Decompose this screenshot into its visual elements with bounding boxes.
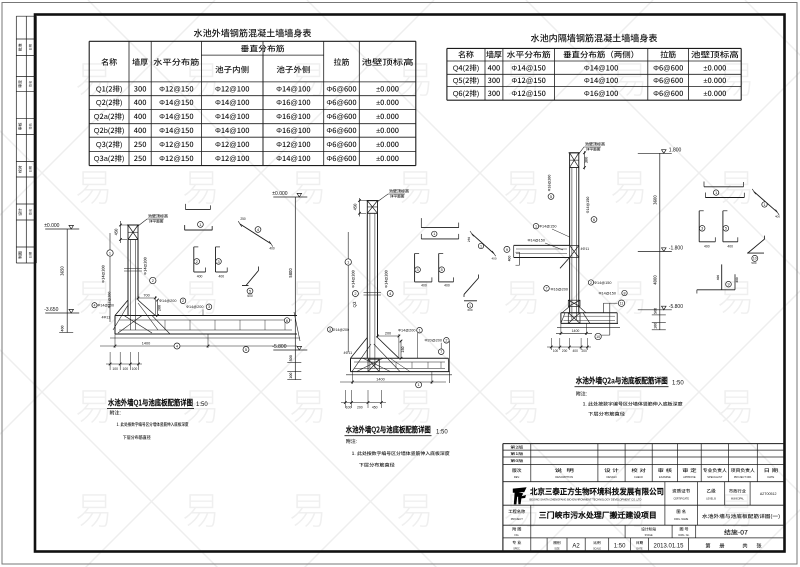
svg-text:比例: 比例 <box>593 540 601 546</box>
svg-text:Φ14@150: Φ14@150 <box>586 197 591 214</box>
svg-text:400: 400 <box>421 284 427 288</box>
svg-text:1. 此处按数字编号区分墙体竖筋伸入底板深度: 1. 此处按数字编号区分墙体竖筋伸入底板深度 <box>117 422 189 428</box>
svg-text:PROJECT: PROJECT <box>511 517 524 521</box>
svg-text:500: 500 <box>653 308 658 314</box>
svg-text:详平面图: 详平面图 <box>390 194 405 200</box>
svg-text:±0.000: ±0.000 <box>703 75 726 86</box>
svg-text:Φ6@600: Φ6@600 <box>326 153 356 164</box>
svg-text:400: 400 <box>735 277 739 282</box>
svg-text:Q2(2排): Q2(2排) <box>96 97 123 108</box>
svg-text:CERTIFICATE: CERTIFICATE <box>673 498 689 501</box>
svg-text:500: 500 <box>289 355 294 361</box>
svg-text:设 计: 设 计 <box>604 468 619 474</box>
svg-text:2: 2 <box>354 291 356 296</box>
svg-text:Φ14@150: Φ14@150 <box>594 281 611 285</box>
svg-text:详平面图: 详平面图 <box>149 219 164 225</box>
svg-text:4: 4 <box>94 303 96 307</box>
svg-text:100: 100 <box>112 367 118 371</box>
svg-text:-5.800: -5.800 <box>669 304 683 310</box>
svg-text:200: 200 <box>385 332 391 336</box>
svg-text:3: 3 <box>417 268 419 272</box>
svg-text:垂直分布筋（两侧）: 垂直分布筋（两侧） <box>563 50 639 61</box>
svg-text:3600: 3600 <box>652 195 658 205</box>
svg-text:EXAMINE: EXAMINE <box>659 475 671 479</box>
svg-text:2: 2 <box>196 260 198 264</box>
svg-text:签名: 签名 <box>28 209 33 215</box>
svg-text:Φ14@200: Φ14@200 <box>102 265 107 283</box>
svg-text:9: 9 <box>727 283 729 287</box>
svg-text:Φ12@100: Φ12@100 <box>215 83 249 94</box>
svg-text:结施-07: 结施-07 <box>724 528 749 537</box>
svg-text:易: 易 <box>717 376 755 431</box>
svg-text:DESIGN: DESIGN <box>607 475 617 479</box>
svg-text:Φ14@150: Φ14@150 <box>159 125 193 136</box>
svg-text:4000: 4000 <box>652 275 658 285</box>
svg-text:Φ14@150: Φ14@150 <box>511 62 545 73</box>
svg-text:水平分布筋: 水平分布筋 <box>153 57 199 68</box>
svg-text:附 图: 附 图 <box>512 527 521 533</box>
svg-text:APPROVE: APPROVE <box>683 475 696 479</box>
svg-text:Q2a(2排): Q2a(2排) <box>94 111 125 122</box>
svg-text:Φ14@100: Φ14@100 <box>276 153 310 164</box>
svg-text:250: 250 <box>134 139 147 150</box>
svg-text:100: 100 <box>132 367 138 371</box>
svg-text:易: 易 <box>289 376 327 431</box>
svg-text:Φ14@100: Φ14@100 <box>276 83 310 94</box>
svg-text:拉筋: 拉筋 <box>334 57 350 68</box>
svg-text:400: 400 <box>444 284 450 288</box>
svg-text:600: 600 <box>247 294 253 298</box>
svg-text:250: 250 <box>134 153 147 164</box>
svg-text:7: 7 <box>440 350 442 354</box>
svg-text:名称: 名称 <box>101 57 117 68</box>
svg-text:400: 400 <box>727 244 733 248</box>
svg-text:附注:: 附注: <box>110 410 121 417</box>
svg-text:审 定: 审 定 <box>682 468 697 474</box>
svg-text:日期: 日期 <box>636 541 644 546</box>
svg-text:制图: 制图 <box>18 251 24 259</box>
svg-text:说 明: 说 明 <box>555 468 575 474</box>
svg-text:1: 1 <box>347 259 349 264</box>
svg-text:±0.000: ±0.000 <box>376 139 399 150</box>
svg-text:第0版: 第0版 <box>510 458 524 464</box>
svg-text:Φ6@600: Φ6@600 <box>326 111 356 122</box>
svg-text:第1版: 第1版 <box>510 451 524 457</box>
svg-text:墙厚: 墙厚 <box>132 57 148 68</box>
svg-text:400: 400 <box>197 275 203 279</box>
svg-text:垂直分布筋: 垂直分布筋 <box>241 44 285 55</box>
svg-text:400: 400 <box>704 244 710 248</box>
svg-text:DATE: DATE <box>768 475 775 479</box>
svg-text:Q2: Q2 <box>352 301 358 307</box>
svg-text:签名: 签名 <box>28 81 33 87</box>
svg-text:1: 1 <box>535 225 537 229</box>
svg-text:100: 100 <box>346 405 352 409</box>
svg-text:±0.000: ±0.000 <box>376 153 399 164</box>
svg-text:300: 300 <box>585 157 590 164</box>
svg-text:±0.000: ±0.000 <box>376 125 399 136</box>
svg-text:易: 易 <box>75 480 113 535</box>
svg-text:第2版: 第2版 <box>510 445 524 451</box>
svg-text:版次: 版次 <box>512 468 522 474</box>
svg-text:Q2b(2排): Q2b(2排) <box>94 125 125 136</box>
svg-text:1: 1 <box>109 250 111 255</box>
svg-text:3: 3 <box>329 328 331 332</box>
svg-text:200: 200 <box>357 405 363 409</box>
svg-text:Φ12@150: Φ12@150 <box>159 139 193 150</box>
svg-text:册: 册 <box>719 543 724 550</box>
svg-text:1400: 1400 <box>142 342 150 346</box>
svg-text:100: 100 <box>122 367 128 371</box>
svg-text:Φ14@150: Φ14@150 <box>539 225 556 229</box>
svg-text:易: 易 <box>396 480 434 535</box>
svg-text:Φ6@600: Φ6@600 <box>326 139 356 150</box>
svg-text:水平分布筋: 水平分布筋 <box>507 50 551 61</box>
svg-text:200: 200 <box>582 349 588 353</box>
svg-text:7: 7 <box>545 287 547 291</box>
svg-text:Φ14@150: Φ14@150 <box>528 239 545 243</box>
svg-text:CHECK: CHECK <box>634 475 643 479</box>
svg-text:池壁顶标高: 池壁顶标高 <box>362 57 414 68</box>
svg-text:1400: 1400 <box>572 329 580 333</box>
svg-text:Φ12@150: Φ12@150 <box>159 83 193 94</box>
svg-text:400: 400 <box>573 349 579 353</box>
svg-text:Φ14@100: Φ14@100 <box>215 111 249 122</box>
svg-text:-5.800: -5.800 <box>272 344 286 350</box>
svg-text:LEVEL B: LEVEL B <box>706 498 716 501</box>
svg-text:400: 400 <box>269 247 275 251</box>
svg-text:10: 10 <box>596 335 600 339</box>
svg-text:±0.000: ±0.000 <box>272 191 287 197</box>
svg-text:MUNICIPAL: MUNICIPAL <box>731 498 745 501</box>
svg-text:易: 易 <box>717 157 755 212</box>
svg-text:市政行业: 市政行业 <box>729 489 746 495</box>
svg-text:易: 易 <box>503 157 541 212</box>
svg-text:易: 易 <box>289 267 327 322</box>
svg-text:专 业: 专 业 <box>512 540 521 546</box>
svg-text:500: 500 <box>751 261 756 265</box>
svg-text:Φ14@100: Φ14@100 <box>584 75 618 86</box>
svg-text:Φ6@600: Φ6@600 <box>326 125 356 136</box>
svg-text:Φ16@200: Φ16@200 <box>551 287 568 291</box>
svg-text:Φ14@200: Φ14@200 <box>352 270 357 288</box>
svg-text:Φ16@100: Φ16@100 <box>276 111 310 122</box>
svg-text:DESCRIPTION: DESCRIPTION <box>555 475 573 479</box>
svg-text:校对: 校对 <box>18 165 24 173</box>
svg-text:下层分布筋直径: 下层分布筋直径 <box>359 463 395 469</box>
svg-text:100: 100 <box>553 349 559 353</box>
svg-text:1:50: 1:50 <box>196 402 208 408</box>
svg-text:水池外墙与池底板配筋详图(一): 水池外墙与池底板配筋详图(一) <box>702 513 780 520</box>
svg-text:审定: 审定 <box>18 80 24 88</box>
svg-text:100: 100 <box>653 323 658 329</box>
svg-text:第: 第 <box>705 543 710 550</box>
svg-text:Φ20@200: Φ20@200 <box>425 339 442 343</box>
svg-text:SPEC.: SPEC. <box>513 547 521 550</box>
svg-text:5: 5 <box>441 268 443 272</box>
svg-text:1:50: 1:50 <box>614 544 626 550</box>
svg-text:详平面图: 详平面图 <box>586 147 601 153</box>
svg-text:Φ14@100: Φ14@100 <box>215 97 249 108</box>
svg-text:水池内隔墙钢筋混凝土墙墙身表: 水池内隔墙钢筋混凝土墙墙身表 <box>531 31 658 45</box>
svg-text:设计阶段: 设计阶段 <box>641 527 656 533</box>
svg-text:1: 1 <box>480 244 482 248</box>
svg-text:三门峡市污水处理厂搬迁建设项目: 三门峡市污水处理厂搬迁建设项目 <box>539 510 657 521</box>
svg-text:名称: 名称 <box>458 50 474 61</box>
svg-text:Q3a(2排): Q3a(2排) <box>94 153 125 164</box>
svg-text:1: 1 <box>418 382 420 387</box>
svg-text:250: 250 <box>467 237 471 242</box>
svg-text:水池外墙钢筋混凝土墙墙身表: 水池外墙钢筋混凝土墙墙身表 <box>194 26 312 40</box>
svg-text:11: 11 <box>620 301 624 305</box>
svg-text:Φ6@600: Φ6@600 <box>653 62 683 73</box>
svg-text:2: 2 <box>152 278 154 283</box>
svg-text:Φ14@150: Φ14@150 <box>159 111 193 122</box>
svg-text:Φ6@600: Φ6@600 <box>653 88 683 99</box>
svg-text:±0.000: ±0.000 <box>376 111 399 122</box>
svg-text:400: 400 <box>134 111 147 122</box>
svg-text:PROJECT DIR.: PROJECT DIR. <box>734 475 752 479</box>
svg-text:1: 1 <box>763 203 765 207</box>
svg-text:±0.000: ±0.000 <box>703 88 726 99</box>
svg-text:附注:: 附注: <box>576 391 587 398</box>
svg-text:3650: 3650 <box>60 266 66 276</box>
svg-text:400: 400 <box>507 256 512 262</box>
svg-text:±0.000: ±0.000 <box>44 223 59 229</box>
svg-text:Q1(2排): Q1(2排) <box>96 83 123 94</box>
svg-text:REV.: REV. <box>514 475 520 479</box>
svg-text:400: 400 <box>716 275 720 280</box>
svg-text:水池外墙Q2与池底板配筋详图: 水池外墙Q2与池底板配筋详图 <box>345 424 431 436</box>
svg-text:Φ16@100: Φ16@100 <box>276 125 310 136</box>
svg-text:Φ16@100: Φ16@100 <box>584 88 618 99</box>
svg-text:专业负责人: 专业负责人 <box>703 468 727 474</box>
svg-text:日期: 日期 <box>28 166 33 172</box>
svg-text:300: 300 <box>488 88 501 99</box>
svg-text:DATE: DATE <box>636 547 643 550</box>
svg-text:Φ14@200: Φ14@200 <box>144 257 149 275</box>
svg-text:FIG.: FIG. <box>514 534 519 537</box>
svg-text:易: 易 <box>717 267 755 322</box>
svg-text:4Φ11: 4Φ11 <box>344 351 353 355</box>
svg-text:9: 9 <box>506 247 508 252</box>
svg-text:拉筋: 拉筋 <box>660 50 676 61</box>
svg-text:SIZE: SIZE <box>554 547 560 550</box>
svg-text:易: 易 <box>610 157 648 212</box>
svg-text:Φ6@600: Φ6@600 <box>326 97 356 108</box>
svg-text:池子外侧: 池子外侧 <box>276 65 310 76</box>
svg-text:1: 1 <box>433 232 435 236</box>
svg-text:4Φ11: 4Φ11 <box>581 247 590 251</box>
svg-text:图 号: 图 号 <box>679 527 688 533</box>
svg-text:Φ12@150: Φ12@150 <box>511 88 545 99</box>
svg-text:SCALE: SCALE <box>593 547 601 550</box>
svg-text:工程名称: 工程名称 <box>508 509 526 515</box>
svg-text:易: 易 <box>503 267 541 322</box>
svg-text:±0.000: ±0.000 <box>703 62 726 73</box>
svg-text:Φ12@100: Φ12@100 <box>215 139 249 150</box>
svg-text:2: 2 <box>182 299 184 303</box>
svg-text:校 对: 校 对 <box>631 468 646 474</box>
svg-text:400: 400 <box>491 257 496 261</box>
svg-text:3: 3 <box>217 260 219 264</box>
svg-text:池子内侧: 池子内侧 <box>215 65 249 76</box>
svg-text:Φ14@150: Φ14@150 <box>599 291 616 295</box>
svg-text:易: 易 <box>182 480 220 535</box>
svg-text:DWG. NAME: DWG. NAME <box>674 518 688 521</box>
svg-text:Φ14@200: Φ14@200 <box>398 329 415 333</box>
svg-text:Φ12@150: Φ12@150 <box>159 153 193 164</box>
svg-text:Φ14@100: Φ14@100 <box>584 62 618 73</box>
svg-text:批准: 批准 <box>18 43 24 51</box>
svg-text:Φ14@200: Φ14@200 <box>98 304 115 308</box>
svg-text:易: 易 <box>289 480 327 535</box>
svg-text:Φ6@600: Φ6@600 <box>326 83 356 94</box>
svg-text:下层分布筋直径: 下层分布筋直径 <box>588 412 625 418</box>
svg-text:1. 此处按数字编号区分墙体竖筋伸入底板深度: 1. 此处按数字编号区分墙体竖筋伸入底板深度 <box>352 451 450 457</box>
svg-text:图别: 图别 <box>553 541 561 546</box>
svg-text:Φ14@200: Φ14@200 <box>186 305 203 309</box>
svg-text:水池外墙Q1与池底板配筋详图: 水池外墙Q1与池底板配筋详图 <box>107 397 193 409</box>
svg-text:400: 400 <box>218 275 224 279</box>
svg-text:Φ14@200: Φ14@200 <box>333 328 350 332</box>
svg-text:450: 450 <box>114 228 120 236</box>
svg-text:Φ14@100: Φ14@100 <box>215 125 249 136</box>
svg-text:项目负责人: 项目负责人 <box>731 468 755 474</box>
svg-text:日期: 日期 <box>28 44 33 50</box>
svg-text:审 核: 审 核 <box>658 468 673 474</box>
svg-text:1.800: 1.800 <box>669 147 682 153</box>
svg-text:附注:: 附注: <box>346 438 357 445</box>
svg-text:审核: 审核 <box>18 122 24 130</box>
svg-text:5: 5 <box>725 227 727 231</box>
svg-text:Φ14@200: Φ14@200 <box>384 270 389 288</box>
svg-text:1: 1 <box>715 191 717 195</box>
svg-text:图 名: 图 名 <box>676 509 686 515</box>
svg-text:600: 600 <box>467 308 472 312</box>
svg-text:6: 6 <box>593 217 595 222</box>
svg-text:下层分布筋直径: 下层分布筋直径 <box>123 435 151 441</box>
svg-text:3: 3 <box>208 305 210 309</box>
svg-text:BEIJING SANTAI ZHENGFANG BIO-E: BEIJING SANTAI ZHENGFANG BIO-ENVIRONMENT… <box>530 498 642 502</box>
svg-text:400: 400 <box>775 215 780 219</box>
svg-text:450: 450 <box>353 203 359 211</box>
svg-text:2: 2 <box>445 339 447 343</box>
svg-text:1: 1 <box>418 329 420 333</box>
svg-text:STAGE: STAGE <box>645 534 653 537</box>
svg-text:Φ12@150: Φ12@150 <box>511 75 545 86</box>
svg-text:签名: 签名 <box>28 123 33 129</box>
svg-text:A2: A2 <box>572 544 580 550</box>
svg-text:Φ12@100: Φ12@100 <box>215 153 249 164</box>
svg-text:5: 5 <box>245 347 247 352</box>
svg-text:2: 2 <box>590 281 592 285</box>
svg-text:1400: 1400 <box>376 378 384 382</box>
svg-text:设计: 设计 <box>18 208 24 216</box>
svg-text:200: 200 <box>562 349 568 353</box>
svg-text:水池外墙Q2a与池底板配筋详图: 水池外墙Q2a与池底板配筋详图 <box>575 375 668 387</box>
svg-text:6: 6 <box>286 318 288 323</box>
svg-text:700: 700 <box>143 294 149 298</box>
svg-text:Φ12@100: Φ12@100 <box>276 139 310 150</box>
svg-text:3: 3 <box>701 227 703 231</box>
svg-text:乙级: 乙级 <box>706 489 716 495</box>
svg-text:Q3(2排): Q3(2排) <box>96 139 123 150</box>
svg-text:450: 450 <box>372 405 378 409</box>
svg-text:日期: 日期 <box>28 252 33 258</box>
svg-text:±0.000: ±0.000 <box>376 97 399 108</box>
svg-text:北京三泰正方生物环境科技发展有限公司: 北京三泰正方生物环境科技发展有限公司 <box>530 486 664 498</box>
svg-text:资质证书: 资质证书 <box>672 489 691 495</box>
svg-text:Q4(2排): Q4(2排) <box>453 62 480 73</box>
svg-text:Q6(2排): Q6(2排) <box>453 88 480 99</box>
svg-text:DWG. No.: DWG. No. <box>679 534 690 537</box>
svg-text:1:50: 1:50 <box>672 381 684 387</box>
svg-text:300: 300 <box>134 83 147 94</box>
svg-text:4Φ11: 4Φ11 <box>102 316 111 320</box>
svg-text:SPECIALIST: SPECIALIST <box>707 475 722 479</box>
svg-text:Φ14@150: Φ14@150 <box>159 97 193 108</box>
svg-text:易: 易 <box>503 376 541 431</box>
svg-text:1. 此处按数字编号区分墙体竖筋伸入底板深度: 1. 此处按数字编号区分墙体竖筋伸入底板深度 <box>583 402 683 408</box>
svg-text:200: 200 <box>158 305 163 311</box>
svg-text:400: 400 <box>134 97 147 108</box>
svg-text:400: 400 <box>488 62 501 73</box>
svg-text:Φ16@100: Φ16@100 <box>276 97 310 108</box>
svg-text:Q5(2排): Q5(2排) <box>453 75 480 86</box>
svg-text:日 期: 日 期 <box>764 468 779 474</box>
svg-text:400: 400 <box>61 325 66 331</box>
svg-text:1:50: 1:50 <box>436 430 448 436</box>
svg-text:300: 300 <box>488 75 501 86</box>
svg-text:Φ14@200: Φ14@200 <box>159 299 176 303</box>
svg-text:150: 150 <box>401 346 406 352</box>
svg-text:A2T00512: A2T00512 <box>760 492 777 496</box>
svg-text:5: 5 <box>550 194 552 199</box>
svg-text:250: 250 <box>240 217 246 221</box>
svg-text:2013.01.15: 2013.01.15 <box>653 544 684 550</box>
svg-text:-1.800: -1.800 <box>669 245 683 251</box>
svg-text:Φ16@200: Φ16@200 <box>548 175 553 192</box>
svg-text:Φ6@600: Φ6@600 <box>653 75 683 86</box>
svg-text:100: 100 <box>289 373 294 379</box>
svg-text:±0.000: ±0.000 <box>376 83 399 94</box>
svg-text:池壁顶标高: 池壁顶标高 <box>691 50 739 61</box>
svg-text:400: 400 <box>134 125 147 136</box>
svg-text:张: 张 <box>756 543 762 550</box>
svg-text:共: 共 <box>742 543 747 550</box>
svg-text:-3.650: -3.650 <box>44 307 58 313</box>
svg-text:墙厚: 墙厚 <box>486 50 502 61</box>
svg-text:8: 8 <box>623 291 625 295</box>
svg-text:5800: 5800 <box>288 268 294 278</box>
